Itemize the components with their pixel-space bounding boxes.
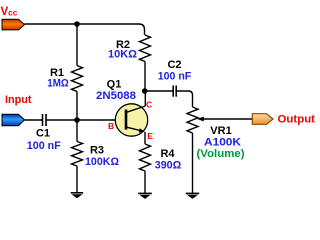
VR1 wiper arrow <box>197 117 253 122</box>
wire: input connector to C1 <box>25 119 43 121</box>
wire: emitter down to R4 <box>144 132 146 144</box>
ground under VR1 <box>186 193 199 198</box>
svg-text:1MΩ: 1MΩ <box>47 78 69 90</box>
wire: VR1 bottom to ground <box>192 133 194 193</box>
svg-text:100 nF: 100 nF <box>27 140 61 152</box>
svg-text:10KΩ: 10KΩ <box>108 49 137 61</box>
wire: collector up to node <box>144 91 146 106</box>
wire: C1 to base of Q1 through node <box>46 119 126 121</box>
resistor R3 <box>72 142 83 167</box>
junction node at input / base / R3 <box>74 117 80 123</box>
svg-text:2N5088: 2N5088 <box>96 90 136 102</box>
junction node at Vcc rail / R1 <box>74 21 80 27</box>
Q1 collector line <box>126 106 145 113</box>
ground under R4 <box>138 193 152 198</box>
svg-text:C: C <box>146 100 152 110</box>
svg-text:390Ω: 390Ω <box>155 160 182 172</box>
junction node at collector / R2 / C2 <box>142 88 148 94</box>
Output connector <box>252 114 273 125</box>
svg-text:VR1: VR1 <box>210 125 231 137</box>
capacitor C1 <box>43 114 47 126</box>
svg-text:Input: Input <box>5 94 32 106</box>
svg-text:Q1: Q1 <box>107 79 122 91</box>
svg-text:R4: R4 <box>160 148 175 160</box>
svg-text:100KΩ: 100KΩ <box>85 156 119 168</box>
resistor R4 <box>140 144 151 171</box>
resistor R2 <box>140 35 151 62</box>
wire: input node down to R3 top <box>76 120 78 142</box>
svg-text:R3: R3 <box>90 145 104 157</box>
svg-text:Output: Output <box>278 114 316 126</box>
svg-text:E: E <box>147 131 153 141</box>
svg-text:100 nF: 100 nF <box>158 71 192 83</box>
capacitor C2 <box>173 86 176 97</box>
Vcc connector <box>2 19 25 30</box>
transistor Q1 body <box>115 104 147 136</box>
Q1 base bar <box>125 110 128 130</box>
svg-text:B: B <box>108 121 114 131</box>
wire: C2 right plate to VR1 top with corner <box>176 91 192 107</box>
svg-text:C1: C1 <box>36 128 50 140</box>
Q1 emitter line with arrow <box>126 127 145 133</box>
resistor R1 <box>72 66 83 92</box>
wire: R1 bottom to input node <box>76 92 78 121</box>
wire: Vcc rail top horizontal with corner down to R2 <box>25 24 145 35</box>
wire: R4 bottom to ground <box>144 171 146 193</box>
wire: R3 bottom to ground <box>76 166 78 193</box>
wire: left rail from top junction down to R1 top <box>76 24 78 66</box>
svg-text:C2: C2 <box>167 59 181 71</box>
Input connector <box>2 114 25 126</box>
ground under R3 <box>71 193 83 198</box>
svg-text:Vcc: Vcc <box>1 6 18 18</box>
svg-text:(Volume): (Volume) <box>197 148 245 160</box>
svg-text:A100K: A100K <box>204 137 241 149</box>
potentiometer VR1 body <box>187 107 198 133</box>
wire: R2 bottom to collector node <box>144 62 146 92</box>
wire: collector node to C2 left plate <box>145 90 173 92</box>
